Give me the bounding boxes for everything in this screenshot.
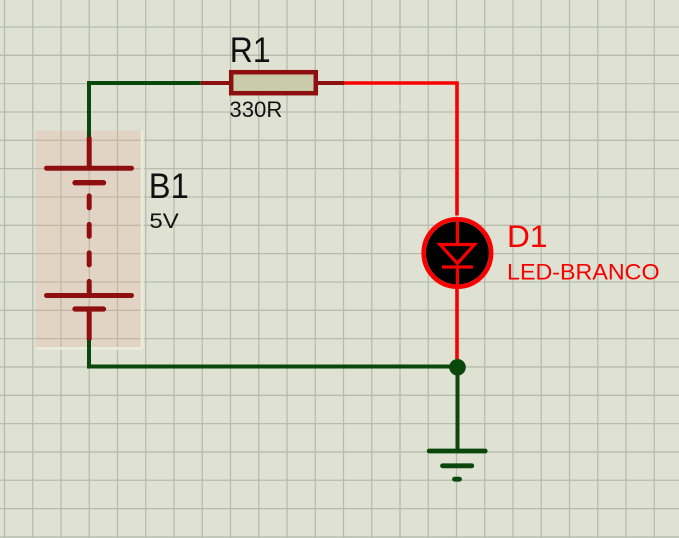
svg-text:B1: B1: [149, 167, 189, 206]
svg-text:5V: 5V: [149, 209, 179, 233]
svg-text:330R: 330R: [229, 97, 282, 122]
svg-text:D1: D1: [507, 218, 548, 254]
svg-text:LED-BRANCO: LED-BRANCO: [507, 260, 660, 285]
svg-text:R1: R1: [230, 30, 271, 70]
